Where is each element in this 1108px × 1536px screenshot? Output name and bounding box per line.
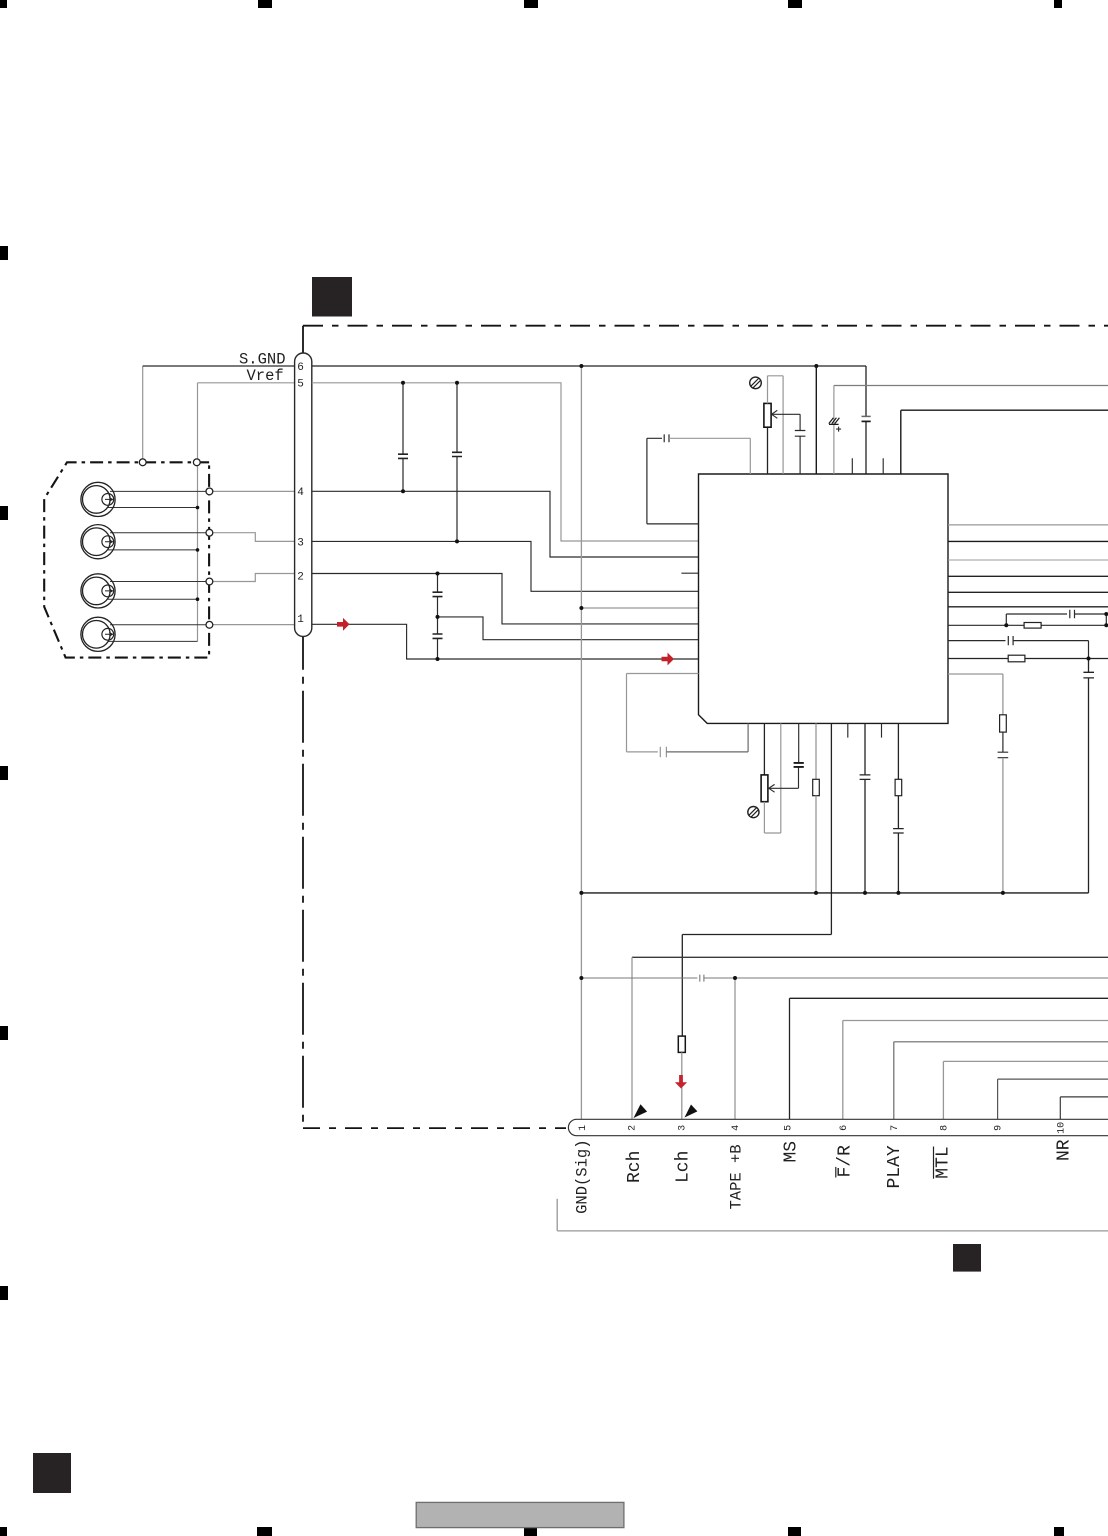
svg-text:5: 5 [783,1125,794,1131]
svg-text:GND(Sig): GND(Sig) [574,1139,592,1213]
svg-text:Lch: Lch [673,1151,693,1183]
svg-text:8: 8 [939,1125,950,1131]
svg-text:3: 3 [297,538,304,550]
svg-text:4: 4 [297,487,304,499]
svg-text:5: 5 [297,379,304,391]
svg-text:NR: NR [1055,1139,1075,1161]
svg-text:S.GND: S.GND [239,350,286,368]
svg-text:7: 7 [890,1125,901,1131]
svg-text:2: 2 [628,1125,639,1131]
svg-text:2: 2 [297,571,304,583]
svg-text:MS: MS [781,1141,801,1163]
svg-text:3: 3 [678,1125,689,1131]
svg-text:10: 10 [1056,1122,1067,1134]
svg-text:6: 6 [297,362,304,374]
svg-text:Rch: Rch [625,1151,645,1183]
svg-text:4: 4 [731,1125,742,1131]
svg-text:TAPE +B: TAPE +B [728,1144,746,1209]
svg-text:1: 1 [578,1125,589,1131]
svg-text:9: 9 [994,1125,1005,1131]
svg-text:PLAY: PLAY [885,1145,905,1188]
svg-text:Vref: Vref [247,367,284,385]
svg-text:F/R: F/R [836,1145,856,1178]
svg-text:6: 6 [839,1125,850,1131]
svg-text:MTL: MTL [933,1146,953,1178]
svg-text:1: 1 [297,614,304,626]
